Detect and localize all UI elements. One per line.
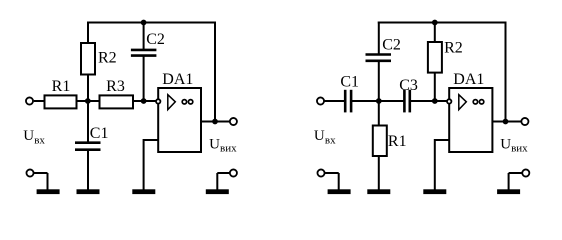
svg-text:R3: R3 (106, 78, 125, 95)
inversion bubble op-amp input (right) (447, 99, 451, 103)
ground R1 (right) (367, 189, 390, 194)
svg-text:R1: R1 (52, 78, 71, 95)
junction dot R2 top rail (right) (432, 20, 438, 26)
wire input terminal to R1 (34, 100, 44, 102)
wire C1 bottom lead to ground (87, 150, 89, 190)
svg-text:C2: C2 (382, 36, 401, 53)
svg-text:C1: C1 (340, 73, 359, 90)
output terminal (left circuit) (230, 118, 237, 125)
svg-text:вих: вих (220, 143, 237, 155)
svg-text:U: U (23, 128, 34, 144)
output ground terminal (right circuit) (497, 169, 529, 194)
op-amp triangle symbol (right) (459, 95, 467, 110)
junction dot inverting node (right) (432, 98, 438, 104)
capacitor C2 (right) (366, 55, 392, 61)
wire op-amp output (201, 121, 230, 123)
svg-text:DA1: DA1 (453, 71, 484, 88)
wire input terminal to C1 (324, 100, 344, 102)
svg-text:C1: C1 (90, 125, 109, 142)
resistor R1 (45, 95, 77, 108)
wire R2 bottom lead (right) (434, 73, 436, 101)
op-amp U2 body DA1 (right) (449, 88, 492, 152)
wire R1 top lead (right) (378, 101, 380, 126)
svg-text:R2: R2 (444, 40, 463, 57)
svg-text:C2: C2 (146, 31, 165, 48)
wire R1 bottom lead to ground (right) (378, 156, 380, 190)
wire R2 top lead to top rail (right) (434, 22, 436, 43)
wire top feedback rail (right) (378, 22, 506, 24)
wire C3 to inverting node (right) (410, 100, 449, 102)
output ground terminal (left circuit) (206, 169, 237, 194)
op-amp infinity symbol (182, 100, 193, 104)
resistor R3 (100, 95, 134, 108)
capacitor C3 (right) (404, 90, 409, 113)
wire op-amp output (right) (492, 121, 522, 123)
ground non-inverting input (132, 189, 155, 194)
wire feedback output node to top rail (right) (505, 22, 507, 122)
wire R2 bottom lead to node A (87, 75, 89, 102)
wire C2 top lead (143, 23, 145, 51)
svg-text:вх: вх (325, 134, 336, 146)
op-amp U1 body DA1 (158, 88, 201, 152)
wire R1 to node A (78, 100, 100, 102)
resistor R2 (right) (428, 42, 442, 73)
resistor R1 (right) (373, 126, 387, 157)
svg-text:U: U (209, 137, 220, 153)
svg-text:вих: вих (511, 143, 528, 155)
wire top feedback rail (87, 22, 215, 24)
output terminal (right circuit) (521, 118, 528, 125)
op-amp triangle symbol (168, 95, 176, 110)
wire non-inverting input (144, 140, 159, 190)
junction dot output node (212, 119, 218, 125)
wire non-inverting input (right) (435, 140, 449, 190)
input ground terminal (right circuit) (317, 169, 350, 194)
wire node A to C3 (right) (379, 100, 404, 102)
junction dot C2 top (141, 20, 147, 26)
input terminal (left circuit) (26, 97, 33, 104)
svg-text:U: U (500, 137, 511, 153)
capacitor C1 (75, 143, 101, 150)
resistor R2 (81, 43, 95, 75)
svg-text:C3: C3 (399, 77, 418, 94)
svg-text:U: U (314, 128, 325, 144)
junction dot output node (right) (503, 119, 509, 125)
label Uвх (left) (23, 128, 45, 146)
wire C2 bottom lead to inverting input node (143, 56, 145, 101)
inversion bubble op-amp input (156, 99, 160, 103)
wire C1 to node A (right) (351, 100, 379, 102)
op-amp infinity symbol (right) (473, 100, 484, 104)
input terminal (right circuit) (317, 97, 324, 104)
label Uвх (right) (314, 128, 336, 146)
wire feedback from output node to top rail (214, 22, 216, 122)
svg-text:R2: R2 (98, 50, 117, 67)
ground C1 (77, 189, 100, 194)
wire R3 to op-amp input (134, 100, 158, 102)
node A junction dot (85, 98, 91, 104)
junction dot inverting input node (141, 98, 147, 104)
label Uвих (left) (209, 137, 237, 155)
input ground terminal (left circuit) (26, 169, 59, 194)
capacitor C2 (131, 50, 157, 56)
wire R2 top lead to top feedback wire (87, 22, 89, 44)
wire C1 top lead from node A (87, 101, 89, 143)
label Uвих (right) (500, 137, 528, 155)
svg-text:DA1: DA1 (162, 71, 193, 88)
capacitor C1 (right) (345, 90, 351, 113)
wire C2 bottom lead (right) (378, 61, 380, 101)
wire C2 top lead to top rail (right) (378, 22, 380, 55)
svg-text:вх: вх (34, 134, 45, 146)
svg-text:R1: R1 (388, 133, 407, 150)
node A junction dot (right) (376, 98, 382, 104)
ground non-inverting input (right) (423, 189, 446, 194)
